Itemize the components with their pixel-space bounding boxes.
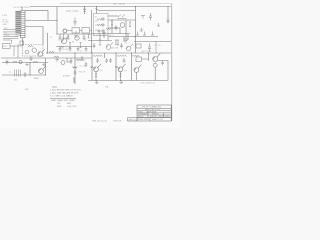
svg-text:C2: C2 [58,40,60,42]
switch S2 box [82,28,90,34]
wire relay box [94,14,109,36]
connector J1 body [21,11,26,38]
capacitor C38 [123,58,126,63]
svg-text:Q2: Q2 [100,70,104,72]
connector J1 pin rows [19,13,26,36]
svg-text:R3: R3 [72,42,74,44]
capacitor C35 [98,30,101,33]
wire output right [158,61,168,81]
inductor L2 [117,55,127,56]
wire box stub a [108,15,118,17]
svg-text:ANT. COIL: ANT. COIL [66,10,79,13]
text bus labels [3,19,10,36]
svg-text:12V: 12V [95,21,99,23]
capacitor C2 [149,13,152,20]
wire J1 out lower [25,27,43,45]
wire notes rule [50,97,76,99]
capacitor C32 [77,47,80,52]
svg-text:Y1 7.0: Y1 7.0 [154,45,161,47]
svg-text:GND: GND [3,24,8,26]
resistor R20 [88,34,90,38]
svg-text:FILT: FILT [3,46,8,48]
capacitor C39 [161,61,164,66]
wire VFO feed vertical [56,7,58,35]
wire mid-right rail a [92,33,130,35]
svg-text:C7: C7 [80,51,82,53]
transistor Q8 leads [153,54,160,60]
capacitor C6 [143,32,146,36]
svg-text:COIL: COIL [95,25,99,27]
resistor R10 [54,56,59,58]
capacitor C4 [157,23,160,26]
resistor R4 [13,61,18,63]
svg-text:R15 1K: R15 1K [79,72,86,74]
ground symbol G2 [95,81,99,84]
ground symbol G5 [26,63,29,66]
resistor R12 [33,61,38,63]
svg-text:C9: C9 [57,103,61,105]
wire lower bus left [1,57,92,59]
junction dot k [30,75,31,76]
wire middle second rail [56,46,92,48]
jack J2 [19,61,22,64]
svg-text:SHEET 1 OF 1: SHEET 1 OF 1 [152,119,163,121]
tube V1 [63,29,67,33]
transistor Q3a [32,48,36,52]
wire far-right drop [167,7,169,21]
capacitor C24 [70,58,73,64]
junction dot n [120,80,121,81]
wire osc link [67,30,92,32]
transistor Q10 leads [106,42,113,47]
capacitor C22 [75,31,78,37]
wire stage tap [104,53,106,58]
capacitor C33 [85,47,88,52]
wire stage 1 vertical [91,53,93,81]
wire J1 bottom drop [22,38,24,46]
svg-text:SIZE B: SIZE B [138,116,144,118]
wire bus left 2 [3,31,19,33]
filter FL1 box [3,44,11,49]
wire b-plus mid [108,7,136,54]
resistor R17 [63,34,65,38]
transistor Q2 [75,36,79,40]
capacitor C44 [96,58,99,63]
capacitor C42 [74,70,77,75]
wire connector top [25,11,48,21]
junction dot m [96,80,97,81]
junction dot i [148,53,149,54]
junction dot a [84,6,85,7]
svg-text:AF AMP: AF AMP [63,75,71,78]
wire audio line [2,62,48,64]
wire right mid upper [134,36,158,38]
svg-text:LL1: LL1 [15,36,18,38]
border frame right edge [171,4,173,122]
resistor R13 [28,45,33,47]
wire audio chain vertical [74,53,76,84]
capacitor C9 [6,60,9,65]
resistor R11 [76,59,81,61]
text signature strip [92,118,137,122]
resistor R8 [117,40,119,45]
junction dot o [47,53,48,54]
capacitor C36 [105,58,108,63]
svg-text:SPDT: SPDT [95,30,101,32]
inductor L3 [132,55,139,56]
wire relay drop [96,7,99,12]
crystal Y1 [136,44,141,48]
wire mid vertical a [111,20,113,34]
ground symbol G3 [55,58,59,61]
capacitor C41 [81,56,84,61]
wire mid-right rail b [108,36,136,38]
capacitor C31 [69,47,72,52]
resistor R29 base [91,67,94,68]
resistor R30 base [115,67,118,68]
wire buffer out [142,58,149,60]
resistor R31 [34,78,38,79]
resistor R16 [115,40,117,45]
relay contacts K1a [118,15,127,19]
wire relay riser [96,11,98,14]
wire audio chain stub [67,58,72,62]
wire bus left 6 [3,39,12,41]
svg-text:LAST USED NOT USED: LAST USED NOT USED [51,99,75,102]
svg-text:2. ALL CAP VALUES IN UUF.: 2. ALL CAP VALUES IN UUF. [50,91,79,94]
wire filter link [10,45,23,47]
transistor Q9 [39,69,44,74]
transistor Q10 [106,45,111,50]
resistor R25 [73,67,78,69]
capacitor C34 [115,25,118,30]
svg-text:REV A: REV A [165,115,171,118]
wire middle left rail [47,33,49,53]
wire bus left 3 [3,33,19,35]
relay armature contact a [102,18,104,20]
junction dot d [57,20,58,21]
capacitor C27 [93,43,96,48]
resistor R1 [49,51,54,53]
relay armature contact b [102,24,104,26]
svg-text:C13 L4 R18 J3: C13 L4 R18 J3 [140,83,155,85]
connector J1 label column [15,11,21,33]
capacitor C30 [59,47,62,52]
connector J1 label column striations [15,13,21,32]
ground symbol G1 [140,28,144,31]
transistor Q3 [25,50,29,54]
wire filter drops [12,40,19,58]
text cluster labels [50,37,86,53]
svg-text:THE R.F. COMPANY INC.: THE R.F. COMPANY INC. [142,105,162,108]
resistor R27 emitter [95,74,97,77]
wire stage 4 vertical [147,53,149,61]
transistor Q9 leads [39,66,46,71]
resistor R9 [97,24,102,26]
svg-text:V1: V1 [50,37,52,39]
wire transformer primary line [2,74,46,76]
svg-text:K1: K1 [95,17,97,19]
capacitor C7 [151,32,154,36]
resistor R2 [59,46,64,48]
wire mixer left rail [91,10,93,53]
svg-text:ANT. RELAY: ANT. RELAY [113,3,126,6]
transistor Q1 leads [61,36,69,43]
resistor R28 emitter [120,74,122,77]
svg-text:600: 600 [14,79,17,81]
capacitor C5 [136,32,139,36]
svg-text:P.A.: P.A. [105,86,109,89]
text connector pin labels lower [15,34,18,38]
transformer T1 [15,70,21,77]
wire stage 2 vertical [115,53,117,81]
transistor Q6 leads [118,64,125,81]
transistor Q7 [134,68,139,73]
transistor Q7 leads [134,65,141,81]
svg-text:OSC 5763: OSC 5763 [141,51,152,53]
wire stage 4 emitter drop [154,67,156,80]
pilot lamp DS2 [63,29,67,33]
terminal box TB1 [20,41,24,45]
resistor R3 [69,43,71,48]
transistor Q1 [61,38,66,43]
wire bus left 1 [3,29,19,31]
capacitor C1 [73,18,76,26]
svg-text:R15 22K: R15 22K [110,48,119,50]
wire connector top riser [21,7,23,11]
text parts table [51,99,77,108]
wire ground bus bottom [88,80,168,82]
capacitor C8 [148,43,151,51]
svg-text:J-101: J-101 [2,15,8,17]
svg-text:DRN J.M. 4-12-57: DRN J.M. 4-12-57 [92,120,107,122]
capacitor C21 [67,34,70,40]
text title block contents [138,105,170,121]
wire relay contact rail [98,10,136,12]
text mid labels [25,35,161,91]
junction dot f [92,53,93,54]
buffer box Z1 [136,57,142,62]
lamp DS1 [153,63,157,67]
svg-text:C14, C15: C14, C15 [67,106,77,108]
svg-text:R24: R24 [57,106,62,108]
capacitor C26 [30,56,33,61]
wire mid vertical b [119,28,121,34]
capacitor C43 [85,62,88,67]
text notes block [50,88,81,97]
meter M1 [61,61,65,65]
wire antenna bus top [30,6,171,8]
capacitor C37 [109,58,112,63]
svg-text:DWG NO. 10452: DWG NO. 10452 [150,116,163,118]
capacitor C23 [83,34,86,40]
svg-text:SPKR: SPKR [4,35,10,37]
wire right mid lower [134,41,171,43]
inductor L1 [93,55,103,56]
shield enclosure dashed [23,45,44,57]
svg-text:CHK R.W.: CHK R.W. [113,120,122,122]
junction dot g [116,53,117,54]
svg-text:APP D.K.: APP D.K. [129,118,137,121]
title block frame [128,105,172,121]
junction dot e [75,53,76,54]
wire long mid bus [46,52,171,54]
capacitor C20 [59,34,62,40]
wire stage 3 vertical [131,53,133,81]
svg-text:MIC: MIC [25,89,29,91]
border frame top edge [60,3,172,5]
transistor Q11 [126,46,131,51]
capacitor C11 [125,36,128,43]
svg-text:R5 47K: R5 47K [62,49,69,51]
capacitor C40 [167,20,170,23]
junction dot j [30,62,31,63]
transistor Q5 [94,67,99,72]
wire bus left 4 [3,35,19,37]
transistor Q8 [153,57,158,62]
wire bus left 5 [3,37,19,39]
svg-text:Q3: Q3 [124,70,128,72]
potentiometer R5 [97,19,102,21]
svg-text:R14 470K: R14 470K [77,60,86,62]
relay armature contact c [102,30,104,32]
wire enclosure to bus [45,58,47,75]
capacitor C25 [24,72,27,77]
switch S1 box [72,28,80,34]
svg-text:1. ALL RESISTORS 1/2 W 10%: 1. ALL RESISTORS 1/2 W 10% [50,88,81,91]
wire box stub b [108,27,120,29]
junction dot l [45,75,46,76]
junction dot c [135,6,136,7]
node antenna tap [83,7,87,15]
wire J1 out mid [25,20,57,22]
ground symbol G4 [42,63,45,66]
svg-text:SCALE NONE: SCALE NONE [138,118,150,121]
text relay box rows [95,17,101,33]
resistor R6 [111,20,113,25]
resistor R23 [106,28,111,30]
resistor R3b [80,43,82,48]
resistor R7 [99,40,101,45]
capacitor C3 [141,16,145,19]
wire mid-right screen rail [88,40,112,42]
svg-text:C6: C6 [84,40,86,42]
resistor R21 [129,22,131,27]
svg-text:C5 .01 R6 10K C8 500 L2: C5 .01 R6 10K C8 500 L2 [93,35,114,37]
svg-text:L6 C4 NE-2 R19: L6 C4 NE-2 R19 [14,7,31,9]
transistor Q6 [118,67,123,72]
wire xtal tap [155,42,157,54]
relay K1 coil [120,23,125,28]
wire mid vertical c [125,20,127,36]
transistor Q5 leads [94,64,101,81]
ground symbol G6 [119,81,123,84]
wire mic stage vertical [29,63,31,76]
transistor Q11 leads [126,44,133,49]
wire comb verticals [100,34,128,43]
text notes heading dash [52,86,57,88]
junction dot h [131,53,132,54]
capacitor C10 [103,30,106,37]
capacitor C28 [120,43,123,48]
wire middle cap rail [56,33,92,35]
svg-text:3. L1 SEE COIL TABLE: 3. L1 SEE COIL TABLE [50,94,73,97]
svg-text:R22: R22 [67,103,72,105]
resistor R26 [73,78,75,82]
junction dot b [96,6,97,7]
transistor Q4 leads [38,49,45,55]
transistor Q4 [38,52,43,57]
svg-text:C12 .05: C12 .05 [79,66,86,68]
svg-text:T-1: T-1 [9,72,13,74]
